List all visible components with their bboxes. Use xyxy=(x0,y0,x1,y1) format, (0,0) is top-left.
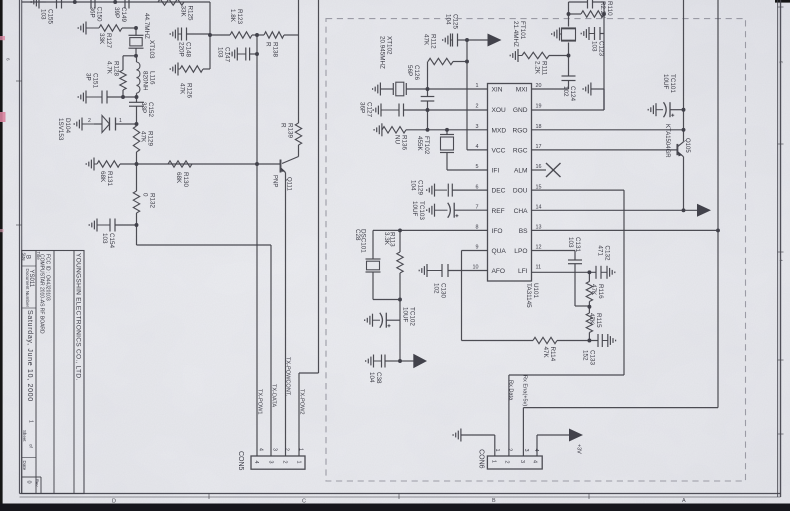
svg-text:XT103: XT103 xyxy=(148,40,155,59)
svg-text:Date: Date xyxy=(22,461,27,471)
resistor R127 xyxy=(86,27,99,29)
capacitor C122 xyxy=(587,0,589,9)
svg-text:BS: BS xyxy=(519,228,528,235)
U101 pin5 IFI wire xyxy=(447,169,488,171)
resistor R114 xyxy=(462,340,534,342)
pink registration mark lower xyxy=(0,229,4,232)
title block column line 1 xyxy=(35,251,37,494)
svg-text:6: 6 xyxy=(476,184,479,190)
U101 pin18 RGO wire xyxy=(532,129,684,131)
junction top rail xyxy=(73,0,77,4)
resistor R139 xyxy=(295,123,301,145)
U101 pin16 ALM X mark xyxy=(532,169,547,171)
svg-text:MXI: MXI xyxy=(516,87,528,94)
wire Q105 emitter down xyxy=(683,157,685,211)
resistor R136 xyxy=(381,129,383,131)
diode D104 varactor xyxy=(82,123,94,125)
ground at FT101 xyxy=(560,33,562,35)
wire rail y164 xyxy=(120,163,280,165)
junction R127 crystal xyxy=(134,26,138,30)
U101 pin3 MXD wire xyxy=(406,129,488,131)
border zone tick left 1 xyxy=(16,80,22,82)
wire LC bottom rail xyxy=(107,96,137,98)
svg-text:C38104: C38104 xyxy=(368,372,382,384)
svg-text:17: 17 xyxy=(536,144,542,150)
svg-text:YOUNGSHIN ELECTRONICS CO., LTD: YOUNGSHIN ELECTRONICS CO., LTD. xyxy=(75,253,82,380)
svg-text:IFO: IFO xyxy=(492,228,503,235)
wire DOU to CON6 pin2 xyxy=(509,374,624,376)
U101 pin19 GND wire xyxy=(532,109,605,111)
power arrow VCC xyxy=(488,34,502,47)
svg-text:TX-POWCONT.: TX-POWCONT. xyxy=(285,357,291,397)
svg-text:QUA: QUA xyxy=(492,248,507,255)
svg-text:C148220P: C148220P xyxy=(178,42,192,58)
wire BS net vertical xyxy=(717,0,719,408)
svg-text:R1112.2K: R1112.2K xyxy=(534,61,548,76)
capacitor C151 xyxy=(86,96,102,98)
svg-text:CON6: CON6 xyxy=(477,449,484,469)
svg-text:2: 2 xyxy=(283,448,289,451)
discriminator DSC101 xyxy=(372,230,374,258)
resistor R128 xyxy=(122,56,124,70)
U101 pin10 AFO wire xyxy=(448,270,488,272)
capacitor C123 xyxy=(589,33,595,35)
capacitor C127 xyxy=(381,109,399,111)
svg-text:7: 7 xyxy=(476,204,479,210)
svg-text:XOU: XOU xyxy=(492,107,507,114)
capacitor C131 xyxy=(574,251,576,261)
svg-text:AFO: AFO xyxy=(492,268,506,275)
svg-text:IFI: IFI xyxy=(492,168,500,175)
wire top rail xyxy=(22,1,210,3)
resistor R111 xyxy=(518,55,522,57)
svg-text:4: 4 xyxy=(532,460,538,463)
capacitor C38 xyxy=(399,320,401,361)
U101 pin2 XOU wire xyxy=(428,109,488,111)
CON5 pin4 wire xyxy=(256,164,258,456)
op-amp/IC U101 TA31145 box xyxy=(488,84,532,282)
capacitor C149 xyxy=(124,0,126,9)
svg-text:RGO: RGO xyxy=(512,127,527,134)
svg-text:Rx Ena(+5v): Rx Ena(+5v) xyxy=(522,375,528,406)
U101 pin8 IFO wire xyxy=(373,229,488,231)
resistor R115 xyxy=(586,313,592,333)
svg-text:REF: REF xyxy=(492,208,505,215)
filter FT101 xyxy=(568,2,570,27)
svg-text:2: 2 xyxy=(281,461,287,464)
svg-text:Rx Data: Rx Data xyxy=(508,380,514,401)
svg-text:FCC ID : O44J20103: FCC ID : O44J20103 xyxy=(45,254,51,301)
title block column line 3 xyxy=(73,251,75,494)
svg-text:14: 14 xyxy=(536,204,542,210)
U101 pin9 QUA wire xyxy=(462,250,488,252)
capacitor C152 xyxy=(136,97,138,102)
scan edge left black strip xyxy=(0,0,3,504)
scan edge top-right black nub xyxy=(775,0,790,3)
U101 pin14 CHA wire xyxy=(532,209,698,211)
svg-text:3: 3 xyxy=(519,460,525,463)
svg-text:13: 13 xyxy=(536,225,542,231)
svg-text:DOU: DOU xyxy=(513,188,528,195)
capacitor TC102 xyxy=(399,300,401,321)
svg-text:18: 18 xyxy=(536,124,542,130)
CON6 pin4 wire xyxy=(536,435,538,456)
svg-text:4: 4 xyxy=(258,448,264,451)
svg-text:3: 3 xyxy=(476,124,479,130)
wire top rail right xyxy=(569,1,588,3)
svg-text:2: 2 xyxy=(504,461,510,464)
dashed receiver section box xyxy=(326,19,746,481)
junction rail x257 xyxy=(255,162,259,166)
wire Q105 collector column xyxy=(683,0,685,142)
wire Q111 emitter to CON5 pin2 xyxy=(285,173,287,457)
svg-text:COMPUSTAR 2010-AS RF BOARD: COMPUSTAR 2010-AS RF BOARD xyxy=(39,254,45,334)
junction R123 R138 xyxy=(255,33,259,37)
svg-text:RGC: RGC xyxy=(513,148,528,155)
svg-text:C: C xyxy=(302,499,306,505)
svg-text:1: 1 xyxy=(490,460,496,463)
power arrow at C38 xyxy=(400,360,414,362)
svg-text:Saturday, June 10, 2000: Saturday, June 10, 2000 xyxy=(26,310,33,402)
svg-text:TX-DATA: TX-DATA xyxy=(271,384,277,407)
connector CON6 xyxy=(487,456,542,469)
svg-text:1: 1 xyxy=(28,420,34,423)
svg-text:2: 2 xyxy=(506,448,512,451)
resistor R123 xyxy=(230,32,252,38)
wire R132 bottom xyxy=(136,213,138,245)
svg-text:3: 3 xyxy=(272,448,278,451)
title block outline xyxy=(22,251,84,494)
svg-text:19: 19 xyxy=(536,104,542,110)
sheet border left inner line xyxy=(21,0,23,494)
border zone tick right 5 xyxy=(778,433,784,435)
svg-text:+3V: +3V xyxy=(576,444,582,454)
wire TX-POW2 net xyxy=(318,0,320,373)
svg-text:3: 3 xyxy=(523,449,529,452)
svg-text:4: 4 xyxy=(533,449,539,452)
svg-text:1: 1 xyxy=(476,83,479,89)
U101 pin1 XIN wire xyxy=(428,88,488,90)
svg-text:4: 4 xyxy=(476,144,479,150)
svg-text:D: D xyxy=(112,499,116,505)
svg-text:10: 10 xyxy=(473,265,479,271)
svg-text:Q105: Q105 xyxy=(684,138,690,153)
svg-text:GND: GND xyxy=(513,107,528,114)
svg-text:KTA1504GR: KTA1504GR xyxy=(664,124,670,158)
signal arrow CHA xyxy=(697,204,711,217)
svg-text:Rev: Rev xyxy=(35,479,40,487)
resistor R113 xyxy=(399,230,401,252)
pink registration mark middle xyxy=(0,112,6,122)
border zone tick right 4 xyxy=(778,359,784,361)
wire R110 column xyxy=(603,2,605,110)
junction D104 column xyxy=(135,122,139,126)
svg-text:2: 2 xyxy=(476,104,479,110)
wire crystal to LC xyxy=(135,48,137,56)
resistor R138 xyxy=(264,32,284,38)
U101 pin4 VCC wire xyxy=(466,40,468,150)
capacitor C147 branch xyxy=(256,35,258,164)
svg-text:5: 5 xyxy=(476,164,479,170)
ground at top rail xyxy=(39,1,46,3)
capacitor C132 xyxy=(595,266,597,279)
sheet border bottom line xyxy=(20,493,781,495)
wire BS to CON6 pin3 xyxy=(523,407,718,409)
resistor R112 xyxy=(428,58,453,64)
resistor R132 xyxy=(133,191,139,213)
U101 pin7 REF wire xyxy=(454,209,487,211)
transistor Q105 xyxy=(676,144,678,155)
svg-text:PNP: PNP xyxy=(272,175,278,187)
title block date divider xyxy=(22,457,36,459)
crystal XT102 xyxy=(379,88,381,90)
junction top rail 2 xyxy=(113,0,117,4)
border zone tick left 2 xyxy=(16,224,22,226)
svg-text:XIN: XIN xyxy=(492,87,503,94)
capacitor C129 xyxy=(435,189,448,191)
U101 pin12 LPO wire xyxy=(532,250,576,252)
svg-text:2: 2 xyxy=(88,118,91,124)
svg-text:LPO: LPO xyxy=(514,248,527,255)
capacitor TC103 xyxy=(435,209,448,211)
resistor R129 xyxy=(133,126,139,152)
U101 pin13 BS wire xyxy=(532,229,719,231)
svg-text:MXD: MXD xyxy=(492,127,507,134)
svg-text:9: 9 xyxy=(476,245,479,251)
svg-text:4: 4 xyxy=(253,461,259,464)
sheet border left outer line xyxy=(19,0,21,494)
svg-text:1: 1 xyxy=(119,118,122,124)
svg-text:CON5: CON5 xyxy=(237,451,244,471)
pink registration mark upper xyxy=(0,36,5,40)
CON6 pin1 ground wire xyxy=(494,435,496,456)
svg-text:4: 4 xyxy=(779,259,784,262)
capacitor C125 and VCC arrow xyxy=(451,39,453,41)
resistor R110 xyxy=(569,13,582,15)
capacitor TC101 xyxy=(656,109,663,111)
svg-text:1: 1 xyxy=(297,448,303,451)
svg-text:TX-POW2: TX-POW2 xyxy=(299,389,305,414)
svg-text:A: A xyxy=(682,498,686,504)
crystal XT103 xyxy=(135,28,137,35)
border zone tick right 3 xyxy=(778,251,784,253)
capacitor C124 xyxy=(568,56,570,77)
svg-text:15: 15 xyxy=(536,184,542,190)
U101 pin11 LFI wire xyxy=(532,271,597,273)
scan edge bottom black strip xyxy=(0,504,790,511)
wire top rail corner down xyxy=(209,2,211,69)
title block column line 2 xyxy=(53,251,55,494)
resistor R131 xyxy=(94,163,97,165)
capacitor C126 xyxy=(427,62,429,97)
svg-text:3: 3 xyxy=(267,461,273,464)
U101 pin15 DOU wire xyxy=(532,189,625,191)
border zone tick bottom 3 xyxy=(588,494,590,500)
U101 pin17 RGC wire xyxy=(532,149,678,151)
inductor L116 xyxy=(137,62,140,93)
border zone tick bottom 1 xyxy=(208,494,210,500)
svg-text:LFI: LFI xyxy=(518,268,528,275)
title block rev divider xyxy=(22,476,41,478)
title block col1 divider b xyxy=(22,307,36,309)
svg-text:16: 16 xyxy=(536,164,542,170)
capacitor C155 xyxy=(56,0,58,9)
svg-text:TX-POW1: TX-POW1 xyxy=(257,389,263,414)
U101 pin20 MXI wire xyxy=(532,88,569,90)
svg-text:12: 12 xyxy=(536,245,542,251)
resistor R126 branch xyxy=(178,68,180,70)
title block col1 divider a xyxy=(22,265,36,267)
resistor R116 xyxy=(588,272,590,281)
svg-text:20: 20 xyxy=(536,83,542,89)
sheet border right inner line xyxy=(777,0,779,497)
svg-text:B: B xyxy=(492,498,496,504)
sheet border right outer line xyxy=(780,0,782,497)
power arrow +3V xyxy=(569,429,583,442)
svg-text:8: 8 xyxy=(476,225,479,231)
svg-text:11: 11 xyxy=(536,265,542,271)
svg-text:DEC: DEC xyxy=(492,188,506,195)
svg-text:ALM: ALM xyxy=(514,168,528,175)
svg-text:R1133.3K: R1133.3K xyxy=(383,232,396,247)
svg-text:6: 6 xyxy=(6,58,11,61)
svg-text:5: 5 xyxy=(779,61,784,64)
svg-text:Q111: Q111 xyxy=(286,177,292,191)
wire y35 rail xyxy=(210,34,230,36)
border zone tick bottom 2 xyxy=(398,494,400,500)
svg-text:YS011: YS011 xyxy=(28,270,34,288)
capacitor C154 xyxy=(97,224,110,226)
U101 pin6 DEC wire xyxy=(452,189,487,191)
svg-text:1: 1 xyxy=(295,461,301,464)
svg-text:0: 0 xyxy=(26,481,32,484)
capacitor C148 branch xyxy=(178,33,182,35)
border zone tick right 2 xyxy=(778,143,784,145)
svg-text:CHA: CHA xyxy=(514,208,529,215)
svg-text:VCC: VCC xyxy=(492,148,506,155)
sheet border bottom second line xyxy=(20,496,781,498)
svg-text:Sheet: Sheet xyxy=(22,430,27,442)
wire to CON5 pin3 xyxy=(137,244,272,246)
resistor R130 xyxy=(168,161,192,167)
svg-text:44.7MHZ: 44.7MHZ xyxy=(143,13,150,39)
ground at CON6 pin1 xyxy=(460,434,462,436)
connector CON5 xyxy=(251,456,305,469)
capacitor C150 xyxy=(90,0,92,9)
border zone tick right 1 xyxy=(778,6,784,8)
capacitor C133 xyxy=(589,340,598,342)
transistor Q111 xyxy=(298,145,300,157)
wire R138 net vertical xyxy=(298,0,300,123)
svg-text:B: B xyxy=(25,255,31,259)
capacitor C130 xyxy=(427,270,442,272)
filter FT102 xyxy=(445,128,449,132)
resistor R125 xyxy=(158,0,184,5)
